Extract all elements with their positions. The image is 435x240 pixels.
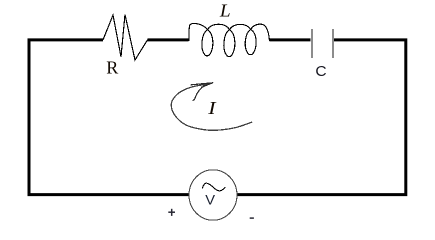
svg-text:I: I <box>207 99 217 118</box>
svg-text:V: V <box>205 193 215 209</box>
svg-text:C: C <box>315 63 326 79</box>
svg-text:L: L <box>219 2 231 21</box>
svg-text:R: R <box>106 58 118 78</box>
